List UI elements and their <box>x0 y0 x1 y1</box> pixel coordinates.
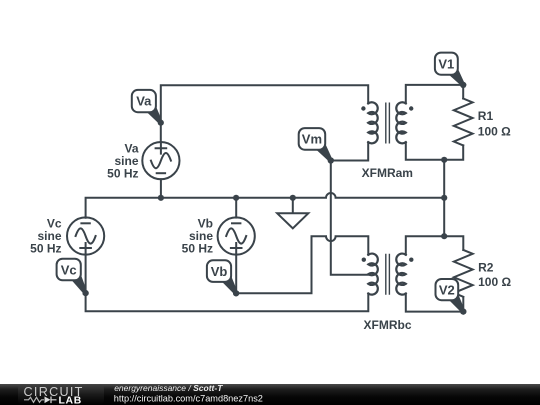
svg-text:50 Hz: 50 Hz <box>30 242 61 256</box>
voltage source Vc <box>67 217 104 254</box>
svg-text:50 Hz: 50 Hz <box>182 242 213 256</box>
junction V1 <box>460 82 466 88</box>
svg-text:V2: V2 <box>439 283 455 298</box>
wire XFMRam secondary top to R1 <box>406 85 463 104</box>
junction R2 top <box>441 233 447 239</box>
wire Vm vertical from XFMRam primary bottom to XFMRbc center tap <box>331 142 369 275</box>
voltage source Vb <box>218 217 255 254</box>
wire Vc bottom lead down to bottom wire and right to XFMRbc primary bottom <box>86 255 369 312</box>
node label Va <box>132 90 164 126</box>
junction Vc label dot <box>83 290 89 296</box>
junction R1 bottom <box>441 157 447 163</box>
junction V2 <box>460 309 466 315</box>
wire Vc top lead <box>85 217 87 219</box>
wire Vb bottom lead, right, up, to XFMRbc primary top with hop down over Vm wire <box>236 236 368 293</box>
svg-text:XFMRbc: XFMRbc <box>364 318 412 332</box>
svg-text:LAB: LAB <box>59 395 82 405</box>
transformer XFMRam primary winding <box>368 102 378 143</box>
wire Va top lead to XFMRam primary top <box>161 85 368 142</box>
node label Vb <box>207 260 239 296</box>
wire XFMRbc secondary top to R2 <box>406 236 464 255</box>
junction Vm <box>328 157 334 163</box>
svg-text:50 Hz: 50 Hz <box>107 166 138 180</box>
phase dot XFMRam secondary <box>409 106 413 110</box>
junction Vb label dot <box>233 290 239 296</box>
svg-text:Va: Va <box>136 94 152 109</box>
transformer XFMRam secondary winding <box>396 102 406 143</box>
node label Vm <box>299 128 334 163</box>
wire Vb top lead <box>235 198 237 218</box>
svg-text:100 Ω: 100 Ω <box>478 125 511 139</box>
resistor R2 <box>454 250 473 297</box>
svg-text:energyrenaissance / Scott-T: energyrenaissance / Scott-T <box>114 383 223 393</box>
svg-text:R1: R1 <box>478 109 494 123</box>
junction Va-neutral <box>158 195 164 201</box>
svg-text:V1: V1 <box>438 56 454 71</box>
transformer XFMRam core <box>386 103 390 143</box>
svg-text:Vm: Vm <box>302 132 322 147</box>
svg-text:XFMRam: XFMRam <box>362 166 413 180</box>
transformer XFMRbc primary winding <box>368 254 378 295</box>
wire Va bottom lead <box>160 179 162 198</box>
voltage source Va <box>142 142 179 179</box>
neutral wire with hop over Vm wire <box>86 193 445 218</box>
svg-text:R2: R2 <box>478 261 494 275</box>
ground <box>277 198 308 229</box>
phase dot XFMRbc primary <box>362 258 366 262</box>
junction Vb-neutral <box>233 195 239 201</box>
svg-text:Vb: Vb <box>211 264 228 279</box>
phase dot XFMRbc secondary <box>409 258 413 262</box>
svg-text:Vc: Vc <box>61 262 77 277</box>
node label Vc <box>57 259 89 297</box>
wire secondary common vertical <box>443 160 445 236</box>
transformer XFMRbc secondary winding <box>396 254 406 295</box>
phase dot XFMRam primary <box>361 106 365 110</box>
svg-text:http://circuitlab.com/c7amd8ne: http://circuitlab.com/c7amd8nez7ns2 <box>114 393 263 403</box>
wire XFMRbc secondary bottom <box>406 294 464 312</box>
transformer XFMRbc core <box>386 254 390 294</box>
svg-text:100 Ω: 100 Ω <box>478 275 511 289</box>
junction neutral-secondary common <box>441 195 447 201</box>
wire XFMRam secondary bottom <box>406 142 463 160</box>
footer CircuitLab logo <box>24 385 84 405</box>
node label V2 <box>436 279 467 315</box>
resistor R1 <box>454 99 473 146</box>
node label V1 <box>435 53 466 88</box>
junction ground-neutral <box>290 195 296 201</box>
